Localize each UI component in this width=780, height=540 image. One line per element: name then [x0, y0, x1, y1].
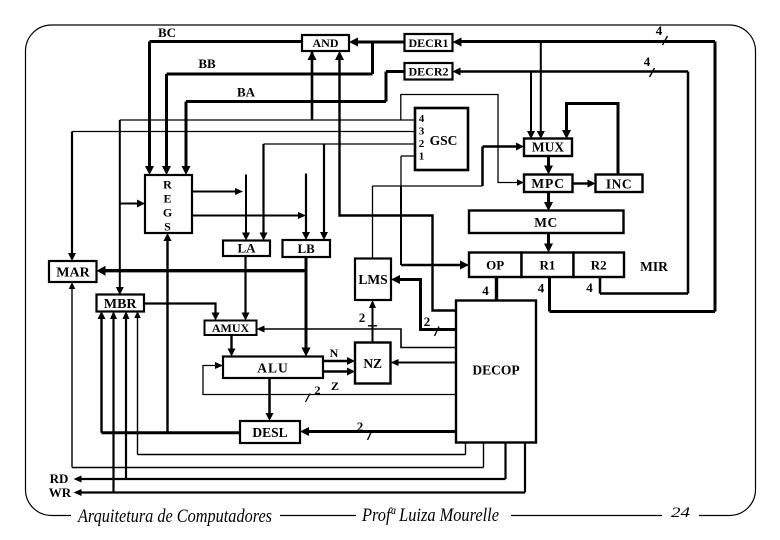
block DESL: [240, 421, 300, 443]
svg-text:R: R: [163, 178, 172, 192]
svg-text:E: E: [163, 192, 171, 206]
svg-text:LB: LB: [298, 241, 316, 256]
svg-text:4: 4: [538, 281, 545, 296]
wire DESL to MBR and REGS: [102, 431, 241, 434]
wire BC: [150, 40, 303, 43]
block LMS: [355, 259, 391, 301]
wire GSC pin1 net: [401, 155, 415, 157]
svg-text:R2: R2: [591, 258, 607, 273]
svg-text:MPC: MPC: [531, 176, 565, 191]
svg-text:S: S: [164, 220, 171, 234]
svg-text:WR: WR: [49, 485, 72, 500]
footer gap masks: [71, 509, 280, 521]
svg-text:MAR: MAR: [56, 266, 90, 281]
block NZ: [355, 343, 391, 384]
wire WR: [112, 318, 114, 493]
wire MUX to MPC: [547, 155, 550, 168]
block OP: [469, 253, 522, 278]
svg-text:LA: LA: [237, 241, 256, 256]
svg-text:DECOP: DECOP: [472, 363, 519, 378]
svg-text:N: N: [330, 346, 339, 360]
wire MBR to AMUX: [144, 304, 216, 315]
block REGS: [145, 175, 192, 233]
svg-text:MC: MC: [534, 215, 558, 230]
wire MPC to MC: [547, 192, 550, 205]
wire BB: [167, 73, 373, 76]
wire DECOP to DESL: [307, 430, 456, 433]
svg-text:4: 4: [656, 23, 663, 38]
wire AMUX to ALU: [230, 335, 232, 350]
svg-text:RD: RD: [50, 471, 69, 486]
svg-text:4: 4: [482, 283, 489, 298]
block GSC: [415, 108, 468, 170]
wire R1 loop to DECR1: [548, 277, 551, 312]
block LA: [223, 241, 270, 257]
wire LA out: [244, 256, 246, 314]
block R1: [522, 253, 574, 278]
svg-text:DESL: DESL: [252, 425, 287, 440]
wire MPC to INC: [573, 182, 589, 184]
svg-text:Z: Z: [331, 379, 339, 393]
svg-text:2: 2: [419, 138, 425, 150]
block MBR: [97, 295, 145, 312]
wire ALU to DESL: [268, 378, 271, 415]
wire DECOP to ALU: [203, 366, 456, 395]
wire ALU to NZ Z: [323, 370, 349, 373]
svg-text:2: 2: [357, 419, 364, 434]
svg-text:2: 2: [315, 383, 321, 397]
wire LB out: [305, 257, 308, 350]
svg-text:INC: INC: [606, 177, 632, 192]
wire DECOP to NZ: [397, 362, 456, 364]
block MPC: [524, 175, 573, 193]
wire DECR2 line to MUX: [530, 72, 532, 133]
wire DECOP to AND: [340, 57, 457, 311]
svg-text:BA: BA: [237, 85, 256, 100]
wire NZ to LMS: [372, 307, 374, 343]
svg-text:LMS: LMS: [358, 272, 387, 287]
wire REGS A out: [192, 191, 237, 193]
svg-text:BC: BC: [158, 25, 176, 40]
svg-text:GSC: GSC: [430, 133, 458, 148]
svg-text:DECR2: DECR2: [409, 65, 449, 79]
svg-text:MIR: MIR: [640, 259, 668, 274]
wire GSC pin2 net: [264, 143, 416, 145]
wire R2 loop to DECR2: [599, 277, 602, 294]
block AND: [302, 35, 349, 51]
svg-text:OP: OP: [486, 258, 504, 273]
block INC: [596, 175, 643, 193]
block DECR2: [405, 63, 453, 80]
svg-text:1: 1: [419, 151, 425, 163]
wire MC to MIR: [547, 233, 550, 246]
svg-text:2: 2: [424, 314, 431, 329]
wire RD: [125, 318, 127, 480]
svg-text:3: 3: [419, 126, 425, 138]
wire ALU to NZ N: [323, 360, 349, 363]
wire DECR1 to AND: [356, 41, 405, 44]
wire GSC pin3 net: [72, 131, 415, 133]
svg-text:ALU: ALU: [257, 361, 289, 376]
wire DECOP to LMS: [398, 280, 457, 330]
svg-text:24: 24: [671, 505, 691, 521]
svg-text:Profª Luiza Mourelle: Profª Luiza Mourelle: [361, 506, 499, 526]
svg-text:DECR1: DECR1: [409, 36, 449, 50]
wire bus to MAR: [104, 269, 307, 272]
block DECR1: [405, 34, 453, 51]
wire REGS B out: [192, 215, 300, 217]
svg-text:AND: AND: [313, 36, 339, 50]
block AMUX: [205, 321, 257, 336]
svg-text:Arquitetura de Computadores: Arquitetura de Computadores: [76, 506, 272, 527]
svg-text:4: 4: [644, 54, 651, 69]
wire MAR control: [71, 289, 73, 468]
wire DECR1 line to MUX: [540, 42, 542, 133]
block ALU: [223, 357, 323, 379]
wire DECOP to AMUX: [263, 329, 456, 348]
wire OP to DECOP: [495, 277, 498, 301]
block LB: [283, 240, 331, 257]
wire GSC pin4 net: [120, 119, 415, 121]
svg-text:4: 4: [419, 113, 425, 125]
wire MBR4 control: [137, 318, 139, 455]
svg-text:4: 4: [586, 280, 593, 295]
svg-text:NZ: NZ: [363, 356, 382, 371]
wire INC to MUX: [567, 104, 619, 175]
svg-text:R1: R1: [540, 258, 556, 273]
block DECOP: [456, 301, 536, 443]
block MUX: [524, 139, 572, 157]
wire BA: [186, 100, 386, 103]
svg-text:MUX: MUX: [532, 140, 564, 155]
svg-text:G: G: [163, 206, 172, 220]
wire DECR2 to BA: [386, 70, 405, 73]
block MAR: [49, 261, 97, 282]
svg-text:BB: BB: [198, 56, 216, 71]
svg-text:AMUX: AMUX: [212, 321, 250, 335]
svg-text:2: 2: [359, 310, 366, 325]
block MC: [469, 211, 624, 234]
svg-text:MBR: MBR: [104, 297, 138, 312]
block R2: [574, 253, 625, 278]
